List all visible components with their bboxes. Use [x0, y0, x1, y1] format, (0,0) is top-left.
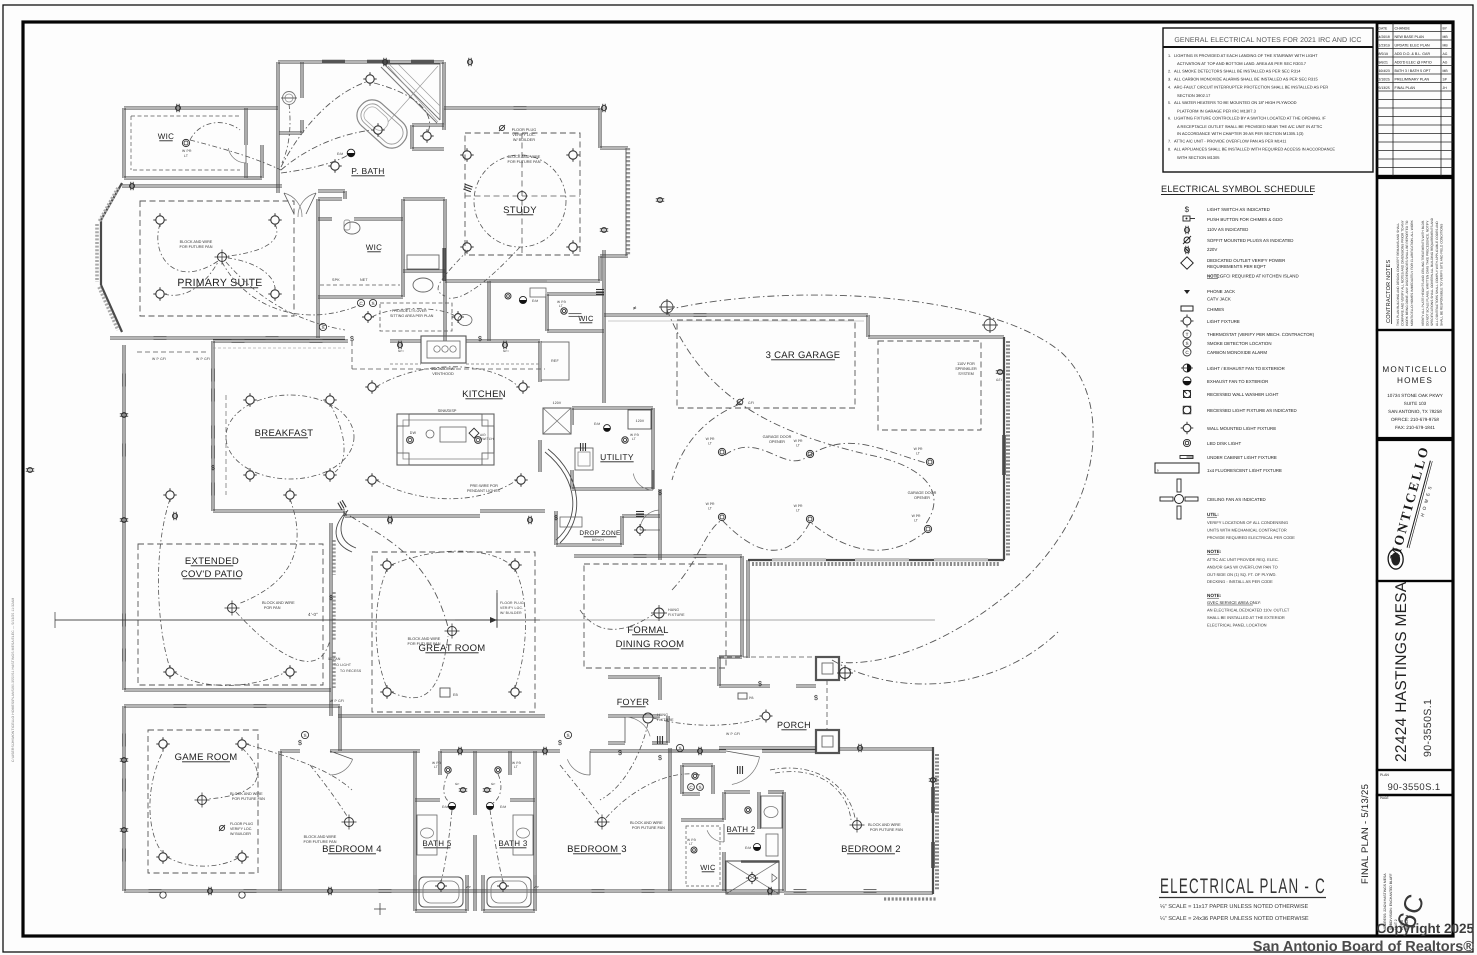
wall study bottom: [470, 281, 600, 283]
porch ext light right: [840, 668, 851, 679]
builder address block: [1377, 330, 1453, 438]
garage fascia line: [608, 320, 864, 322]
svg-text:PORCH: PORCH: [777, 720, 811, 730]
bath5 bath3 block walls: [413, 751, 415, 891]
svg-text:IN ACCORDANCE WITH CHAPTER 39: IN ACCORDANCE WITH CHAPTER 39 AS PER SEC…: [1177, 131, 1304, 136]
wall bedroom row top: [280, 751, 300, 753]
svg-text:LT: LT: [916, 452, 920, 456]
svg-text:8/5/19: 8/5/19: [1379, 52, 1389, 56]
porch pillars: [816, 657, 839, 680]
foyer wiring: [653, 718, 762, 725]
svg-text:PRELIMINARY PLAN: PRELIMINARY PLAN: [1395, 77, 1430, 81]
study wiring circle: [474, 155, 566, 247]
svg-text:TO RECESS: TO RECESS: [340, 669, 362, 673]
cooktop counter: [421, 336, 466, 363]
svg-text:$: $: [558, 739, 562, 747]
wall primary suite bottom: [110, 338, 345, 340]
switch bundle curves center: [350, 516, 448, 627]
svg-text:LIGHT SWITCH AS INDICATED: LIGHT SWITCH AS INDICATED: [1207, 207, 1270, 212]
svg-text:DROP ZONE: DROP ZONE: [579, 530, 621, 537]
builder logo stamp: [1377, 440, 1453, 581]
svg-text:1.: 1.: [1168, 54, 1171, 58]
game room can lights: [156, 737, 169, 750]
svg-text:LT: LT: [184, 154, 188, 158]
svg-text:W PR: W PR: [182, 149, 192, 153]
svg-text:WP: WP: [534, 885, 539, 889]
svg-text:$: $: [658, 489, 662, 497]
svg-text:DINING ROOM: DINING ROOM: [616, 639, 685, 650]
svg-text:4/20/18: 4/20/18: [1379, 35, 1390, 39]
svg-text:⅛" SCALE = 11x17 PAPER UNLESS: ⅛" SCALE = 11x17 PAPER UNLESS NOTED OTHE…: [1160, 904, 1309, 910]
svg-text:FLOOR PLUG: FLOOR PLUG: [512, 128, 537, 132]
svg-text:E/M: E/M: [532, 299, 538, 303]
svg-text:UTIL:: UTIL:: [1207, 512, 1219, 517]
wall primary suite top: [122, 186, 282, 188]
bath wiring: [444, 774, 450, 802]
primary suite wiring arcs: [158, 224, 218, 272]
svg-text:ELECTRICAL PANEL LOCATION: ELECTRICAL PANEL LOCATION: [1207, 622, 1267, 627]
washer dryer closet: [543, 408, 571, 434]
svg-text:7.: 7.: [1168, 140, 1171, 144]
symbol push button: [1183, 216, 1190, 221]
svg-text:120V: 120V: [636, 419, 645, 423]
svg-text:BREAKFAST: BREAKFAST: [255, 428, 314, 439]
symbol recessed wall washer: [1183, 390, 1190, 397]
svg-text:LIGHT / EXHAUST FAN TO EXTERIO: LIGHT / EXHAUST FAN TO EXTERIOR: [1207, 366, 1285, 371]
svg-text:NOTE:: NOTE:: [1207, 593, 1222, 598]
kitchen counter dashed edge: [390, 363, 421, 365]
dining top window: [634, 554, 647, 556]
svg-text:LED DISK LIGHT: LED DISK LIGHT: [1207, 441, 1241, 446]
svg-text:GF: GF: [455, 782, 460, 786]
svg-text:S: S: [1185, 341, 1188, 346]
svg-text:A RECEPTACLE OUTLET SHALL BE P: A RECEPTACLE OUTLET SHALL BE PROVIDED NE…: [1177, 124, 1322, 129]
dining tray dashed: [584, 564, 726, 668]
study center wall washer: [518, 192, 527, 201]
svg-text:EXTENDED: EXTENDED: [185, 556, 239, 567]
study can lights: [460, 148, 473, 161]
svg-text:TO LIGHT: TO LIGHT: [334, 663, 351, 667]
exterior giant wiring loop lower: [832, 630, 1060, 684]
svg-text:SAN ANTONIO, TX 78258: SAN ANTONIO, TX 78258: [1388, 409, 1442, 414]
svg-text:LIGHTING FIXTURE CONTROLLED BY: LIGHTING FIXTURE CONTROLLED BY A SWITCH …: [1174, 116, 1326, 121]
symbol soffit plug: [1183, 236, 1191, 244]
primary bath room outline lower: [316, 199, 318, 297]
svg-text:DEDICATED OUTLET VERIFY POWER: DEDICATED OUTLET VERIFY POWER: [1207, 258, 1285, 263]
wall study top: [444, 108, 600, 110]
primary suite tray ceiling dashed: [140, 201, 294, 316]
general electrical notes box: [1163, 28, 1373, 172]
svg-text:KITCHEN: KITCHEN: [462, 389, 506, 400]
svg-text:MONTICELLO: MONTICELLO: [1382, 365, 1447, 374]
wall WIC1 room top-left: [124, 108, 246, 110]
svg-text:E/M: E/M: [337, 152, 343, 156]
svg-text:LT: LT: [434, 765, 438, 769]
svg-text:BLOCK AND WIRE: BLOCK AND WIRE: [508, 155, 541, 159]
revision table: [1377, 23, 1453, 176]
primary bottom windows: [154, 336, 167, 338]
breakfast north windows: [232, 339, 245, 341]
patio wiring: [158, 499, 170, 668]
porch walls: [719, 686, 770, 688]
svg-text:W/ BUILDER: W/ BUILDER: [230, 832, 251, 836]
svg-text:P. BATH: P. BATH: [351, 166, 384, 176]
great room wiring: [391, 551, 511, 565]
svg-text:SYSTEM: SYSTEM: [958, 372, 974, 376]
svg-text:SUITE 103: SUITE 103: [1404, 401, 1427, 406]
svg-text:WIC: WIC: [700, 863, 716, 872]
vanity bench p.bath: [407, 255, 439, 269]
svg-text:WORK BEING DONE. ANY DISCREPAN: WORK BEING DONE. ANY DISCREPANCIES SHALL…: [1405, 220, 1409, 326]
svg-text:90-3550S.1: 90-3550S.1: [1422, 699, 1434, 757]
svg-text:GFCI REQUIRED AT KITCHEN ISLAN: GFCI REQUIRED AT KITCHEN ISLAND: [1220, 274, 1299, 279]
svg-text:OPENER: OPENER: [769, 440, 785, 444]
svg-text:6.: 6.: [1168, 117, 1171, 121]
svg-text:BLOCK AND WIRE: BLOCK AND WIRE: [180, 240, 213, 244]
symbol 220v outlet: [1184, 246, 1189, 254]
window tick marks top walls: [514, 106, 527, 108]
plan name vertical text 22424 HASTINGS MESA: [1377, 581, 1453, 770]
svg-text:SWITCH: SWITCH: [480, 437, 494, 441]
svg-text:San Antonio Board of Realtors®: San Antonio Board of Realtors®: [1253, 939, 1475, 955]
wall primary right: [316, 297, 318, 338]
symbol thermostat: [1183, 330, 1191, 338]
svg-text:S: S: [698, 785, 701, 790]
svg-text:PROVIDE REQUIRED ELECTRICAL PE: PROVIDE REQUIRED ELECTRICAL PER CODE: [1207, 535, 1295, 540]
wall hall beside WIC1: [246, 108, 278, 110]
svg-text:BLOCK AND WIRE: BLOCK AND WIRE: [304, 835, 337, 839]
wall dining south to foyer: [719, 657, 742, 659]
primary suite left bay windows: [101, 183, 122, 220]
svg-text:120V: 120V: [553, 401, 562, 405]
svg-text:GFI: GFI: [503, 349, 509, 353]
svg-text:OPENER: OPENER: [914, 496, 930, 500]
dining wiring: [580, 610, 654, 629]
svg-text:E/M: E/M: [745, 846, 751, 850]
patio west windows: [122, 374, 124, 387]
great room tray dashed: [372, 552, 535, 712]
symbol phone jack: [1184, 290, 1190, 294]
p.bath long arcs: [281, 82, 366, 167]
svg-text:$: $: [329, 594, 333, 602]
game room fan: [195, 793, 210, 808]
svg-text:W PR: W PR: [794, 504, 803, 508]
svg-text:GARAGE DOOR: GARAGE DOOR: [763, 435, 792, 439]
linen niche light and detectors: [692, 773, 698, 779]
svg-text:WIC: WIC: [366, 243, 382, 252]
svg-text:GF: GF: [491, 782, 496, 786]
wall great room south: [338, 716, 545, 718]
bath2 vanity toilet column: [757, 792, 759, 829]
svg-text:FIXTURE: FIXTURE: [668, 613, 685, 617]
svg-text:CHANGE: CHANGE: [1395, 26, 1411, 30]
title strip left divider: [1376, 22, 1379, 936]
freestanding tub: [351, 94, 413, 154]
primary bath top window bars: [322, 60, 345, 63]
porch light: [760, 710, 773, 723]
svg-text:FOR FUTURE FAN: FOR FUTURE FAN: [632, 826, 665, 830]
wic3 room walls: [547, 294, 604, 296]
bath2 shower: [726, 861, 779, 894]
bedroom2 fan: [850, 818, 865, 833]
svg-text:1x4 FLUORESCENT LIGHT FIXTURE: 1x4 FLUORESCENT LIGHT FIXTURE: [1207, 468, 1282, 473]
svg-text:COMPARE AND VERIFY ALL NOTES A: COMPARE AND VERIFY ALL NOTES AND DIMENSI…: [1401, 219, 1405, 326]
symbol carbon monoxide: [1183, 348, 1191, 356]
svg-text:FOR FUTURE FAN: FOR FUTURE FAN: [508, 160, 541, 164]
svg-text:DATE: DATE: [1379, 26, 1389, 30]
svg-text:10734 STONE OAK PKWY: 10734 STONE OAK PKWY: [1387, 393, 1443, 398]
drop zone: [554, 511, 556, 545]
svg-text:HANG: HANG: [657, 713, 668, 717]
utility door arc: [633, 474, 653, 491]
wall garage right insulated: [1003, 337, 1005, 560]
svg-text:ALL CARBON MONOXIDE ALARMS SHA: ALL CARBON MONOXIDE ALARMS SHALL BE INST…: [1174, 77, 1318, 82]
svg-text:FOR FUTURE FAN: FOR FUTURE FAN: [180, 245, 213, 249]
kitchen island pendants: [407, 437, 414, 444]
svg-text:110V FOR: 110V FOR: [957, 362, 975, 366]
bedroom3 door arc: [567, 759, 590, 775]
patio tray dashed: [138, 544, 323, 685]
svg-text:PUSH BUTTON FOR CHIMES & GDO: PUSH BUTTON FOR CHIMES & GDO: [1207, 217, 1283, 222]
svg-text:90-3550S.1: 90-3550S.1: [1387, 782, 1440, 793]
svg-text:W PR: W PR: [794, 439, 803, 443]
svg-text:SPK: SPK: [332, 278, 340, 282]
svg-text:FAX: 210-679-1841: FAX: 210-679-1841: [1395, 425, 1435, 430]
plan number block: [1377, 770, 1453, 795]
svg-text:BENCH: BENCH: [592, 538, 605, 542]
svg-text:4'-0": 4'-0": [308, 612, 318, 617]
wall patio south: [124, 690, 331, 692]
bedroom2 wiring: [770, 768, 855, 818]
wall garage bottom insulated: [748, 559, 1004, 561]
shower diagonal glass: [384, 64, 440, 120]
svg-text:SHALL BE RESPONSIBLE TO VERIFY: SHALL BE RESPONSIBLE TO VERIFY SITE AND …: [1439, 224, 1443, 326]
bath5 gfi outlets: [459, 787, 467, 792]
svg-text:S: S: [371, 301, 374, 306]
svg-text:EB: EB: [453, 693, 458, 697]
wall garage left lower: [746, 560, 748, 580]
svg-text:S: S: [678, 746, 681, 751]
svg-text:LIGHT FIXTURE: LIGHT FIXTURE: [1207, 319, 1240, 324]
toilet wc2: [344, 222, 360, 234]
svg-text:CATV JACK: CATV JACK: [1207, 296, 1231, 301]
bath2 fixtures: [753, 843, 760, 850]
wall bedroom2 right insulated: [932, 747, 934, 894]
svg-text:LT: LT: [689, 842, 693, 846]
svg-text:LT: LT: [559, 304, 563, 308]
symbol smoke detector: [1183, 339, 1191, 347]
svg-text:W/ BUILDER: W/ BUILDER: [500, 611, 522, 615]
exterior outlets along walls: [175, 104, 180, 112]
svg-text:SHALL BE INSTALLED AT THE EXTE: SHALL BE INSTALLED AT THE EXTERIOR: [1207, 615, 1285, 620]
great room fan: [445, 624, 460, 639]
linen niche walls: [680, 765, 682, 794]
svg-text:$: $: [478, 335, 482, 343]
wall game room left: [122, 706, 124, 891]
game room top windows: [174, 704, 187, 706]
svg-text:ATTIC A/C UNIT - PROVIDE OVERF: ATTIC A/C UNIT - PROVIDE OVERFLOW PAN AS…: [1174, 139, 1287, 144]
garage doors openings: [772, 559, 826, 561]
wall garage top: [604, 315, 868, 317]
svg-text:NET: NET: [360, 278, 368, 282]
dining chandelier: [654, 608, 664, 618]
bedroom4 fan: [342, 815, 357, 830]
primary top arcs to p.bath: [190, 140, 281, 170]
patio roofline dashed: [137, 351, 208, 353]
svg-text:VENTHOOD: VENTHOOD: [432, 372, 454, 376]
svg-text:UNDER CABINET LIGHT FIXTURE: UNDER CABINET LIGHT FIXTURE: [1207, 455, 1277, 460]
bath3 fixtures: [495, 767, 501, 773]
svg-text:SOFFIT MOUNTED PLUGS AS INDICA: SOFFIT MOUNTED PLUGS AS INDICATED: [1207, 238, 1293, 243]
svg-text:ALL CONTRACTORS SHALL COMPLY W: ALL CONTRACTORS SHALL COMPLY WITH APPLIC…: [1435, 221, 1439, 326]
svg-text:3 CAR GARAGE: 3 CAR GARAGE: [766, 350, 841, 361]
svg-text:LT: LT: [708, 442, 712, 446]
wic1 door arc: [228, 148, 246, 163]
porch wall south: [719, 748, 816, 750]
svg-text:DW: DW: [410, 431, 417, 435]
p.bath vanity light fixtures: [182, 139, 189, 146]
svg-text:EXHAUST FAN TO EXTERIOR: EXHAUST FAN TO EXTERIOR: [1207, 379, 1268, 384]
breakfast can lights: [243, 393, 256, 406]
water closet toilet: [283, 92, 296, 105]
svg-text:$: $: [814, 694, 818, 702]
svg-text:E/M: E/M: [500, 805, 506, 809]
water closet walls: [300, 62, 302, 98]
svg-text:ARC-FAULT CIRCUIT INTERRUPTER: ARC-FAULT CIRCUIT INTERRUPTER PROTECTION…: [1174, 85, 1328, 90]
study bay window: [600, 148, 628, 150]
svg-text:110V AS INDICATED: 110V AS INDICATED: [1207, 227, 1248, 232]
svg-text:ALL SMOKE DETECTORS SHALL BE I: ALL SMOKE DETECTORS SHALL BE INSTALLED A…: [1174, 69, 1301, 74]
svg-text:FLOOR PLUG: FLOOR PLUG: [500, 601, 524, 605]
svg-text:W PR: W PR: [914, 447, 923, 451]
svg-text:FOR FUTURE FAN: FOR FUTURE FAN: [232, 797, 265, 801]
svg-text:SECTION 3902.17: SECTION 3902.17: [1177, 93, 1211, 98]
svg-text:BLOCK AND WIRE: BLOCK AND WIRE: [408, 637, 441, 641]
shower seat nook walls: [412, 125, 444, 127]
svg-text:GENERAL ELECTRICAL NOTES FOR 2: GENERAL ELECTRICAL NOTES FOR 2021 IRC AN…: [1174, 37, 1361, 44]
svg-text:WIC: WIC: [578, 314, 594, 323]
kitchen east wall refrigerator nook: [538, 341, 540, 382]
symbol chimes: [1181, 306, 1193, 311]
breakfast wiring oval: [226, 395, 354, 479]
svg-text:PRE-WIRE FOR: PRE-WIRE FOR: [470, 484, 498, 488]
great room eb box: [440, 688, 450, 697]
bedroom4 door arc: [330, 759, 353, 775]
svg-text:2/10/25: 2/10/25: [1379, 77, 1390, 81]
symbol fluorescent fixture: [1155, 463, 1199, 473]
garage right window: [1002, 435, 1004, 475]
garage gfi plug top: [736, 398, 744, 405]
svg-text:NOTE:: NOTE:: [1207, 549, 1222, 554]
svg-text:PLAN: PLAN: [1380, 773, 1389, 777]
svg-text:SPECIFICATIONS SHALL GOVERN AL: SPECIFICATIONS SHALL GOVERN ALL BUILDING…: [1430, 217, 1434, 326]
svg-text:10 FAN: 10 FAN: [328, 657, 341, 661]
symbol under cabinet light: [1180, 456, 1193, 459]
wall game-bed4 divider: [278, 751, 280, 891]
bedroom3 fan: [595, 815, 610, 830]
svg-text:FINAL PLAN: FINAL PLAN: [1395, 86, 1416, 90]
svg-text:b: b: [1157, 469, 1159, 473]
mud hall door to garage: [640, 510, 658, 530]
wall patio west: [122, 345, 124, 690]
svg-text:JH: JH: [1443, 86, 1448, 90]
svg-text:BY: BY: [1443, 26, 1448, 30]
bath vanities: [417, 815, 437, 855]
svg-text:FOR FUTURE FAN: FOR FUTURE FAN: [870, 828, 903, 832]
symbol exhaust fan: [1183, 377, 1191, 385]
hall bath fixtures: [519, 296, 526, 303]
svg-text:BLOCK AND WIRE: BLOCK AND WIRE: [262, 601, 295, 605]
wall house south main: [124, 891, 784, 893]
game room south wall sconces: [160, 892, 166, 898]
bath tubs: [419, 877, 463, 907]
svg-text:220V: 220V: [1207, 247, 1217, 252]
game room tray dashed: [148, 730, 258, 873]
svg-text:LT: LT: [796, 444, 800, 448]
wic4 dashes: [686, 826, 720, 886]
hallway smoke detectors: [301, 731, 308, 738]
svg-text:AG: AG: [1443, 52, 1448, 56]
svg-text:$: $: [350, 335, 354, 343]
svg-text:W PR: W PR: [706, 502, 715, 506]
svg-text:PENDANT LIGHTS: PENDANT LIGHTS: [467, 489, 500, 493]
svg-text:RECESSED LIGHT FIXTURE AS INDI: RECESSED LIGHT FIXTURE AS INDICATED: [1207, 408, 1297, 413]
porch slab dashed: [719, 656, 816, 658]
p.bath exhaust fan: [347, 149, 355, 157]
contractor notes block: [1377, 178, 1453, 330]
svg-text:$: $: [1185, 205, 1190, 214]
svg-text:CHIMES: CHIMES: [1207, 307, 1224, 312]
kitchen can lights: [365, 380, 378, 393]
svg-text:ACTIVATION AT TOP AND BOTTOM L: ACTIVATION AT TOP AND BOTTOM LAND. AREA …: [1177, 61, 1307, 66]
svg-text:SPRINKLER: SPRINKLER: [955, 367, 977, 371]
wire bundle ticks: [463, 184, 472, 191]
svg-text:FOR FAN: FOR FAN: [264, 606, 281, 610]
game room left windows: [122, 734, 124, 747]
garage dashed attic zones: [677, 320, 855, 408]
svg-text:HOMES: HOMES: [1397, 376, 1433, 385]
foyer hang fixture: [643, 713, 653, 723]
svg-text:BEDROOM 3: BEDROOM 3: [567, 844, 627, 855]
primary suite double door swing: [284, 193, 302, 217]
wall north breakfast-kitchen: [213, 341, 348, 343]
svg-text:BLOCK AND WIRE: BLOCK AND WIRE: [630, 821, 663, 825]
svg-text:PAGE: PAGE: [1380, 796, 1389, 800]
svg-text:FORMAL: FORMAL: [627, 625, 668, 636]
svg-text:ELECTRICAL PLAN - C: ELECTRICAL PLAN - C: [1160, 875, 1326, 898]
svg-text:BLOCK AND WIRE: BLOCK AND WIRE: [868, 823, 901, 827]
svg-text:5/13/25: 5/13/25: [1379, 86, 1390, 90]
svg-text:W P GFI: W P GFI: [330, 699, 344, 703]
svg-text:$: $: [211, 464, 215, 472]
wall bedroom2 bottom: [784, 893, 933, 895]
svg-text:BATH 3 / BATH 5 OPT: BATH 3 / BATH 5 OPT: [1395, 69, 1432, 73]
patio fan block: [225, 601, 240, 616]
wall dining east: [740, 556, 742, 657]
svg-text:S: S: [566, 733, 569, 738]
svg-text:3.: 3.: [1168, 78, 1171, 82]
kitchen island: [397, 414, 494, 465]
bath2 shower light: [746, 872, 758, 884]
svg-text:FINAL PLAN - 5/13/25: FINAL PLAN - 5/13/25: [1360, 784, 1371, 884]
study long switch leg: [438, 250, 468, 296]
wall game room top: [124, 706, 340, 708]
svg-text:MONTICELLO HOMES IMMEDIATELY F: MONTICELLO HOMES IMMEDIATELY FOR CLARIFI…: [1410, 219, 1414, 326]
p.bath can lights: [363, 72, 376, 85]
svg-text:AND/OR GAS W/ OVERFLOW PAN TO: AND/OR GAS W/ OVERFLOW PAN TO: [1207, 564, 1278, 569]
symbol wall mounted light: [1181, 422, 1194, 435]
wall foyer: [608, 677, 660, 679]
